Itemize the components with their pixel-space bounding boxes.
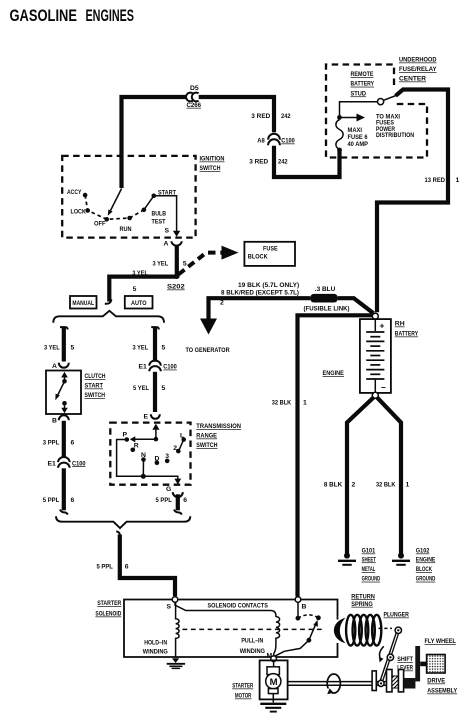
svg-text:AUTO: AUTO: [131, 300, 147, 307]
svg-text:C266: C266: [187, 102, 202, 109]
hold-in winding coil: [176, 602, 180, 657]
flywheel: [427, 655, 446, 674]
svg-text:5: 5: [162, 345, 166, 352]
label MAXI FUSE 6 40 AMP: [348, 127, 369, 148]
line BULB to START: [144, 196, 154, 210]
wire: S202 left to manual/auto split: [109, 277, 177, 302]
svg-text:5 PPL: 5 PPL: [156, 497, 172, 504]
svg-text:8 BLK/RED (EXCEPT 5.7L): 8 BLK/RED (EXCEPT 5.7L): [221, 289, 299, 296]
svg-text:C100: C100: [163, 364, 177, 371]
ignition wiper arm: [111, 189, 122, 211]
svg-text:5: 5: [133, 286, 137, 293]
svg-text:RETURN: RETURN: [351, 593, 375, 600]
curved arrow at lever: [379, 646, 383, 659]
svg-text:GASOLINE: GASOLINE: [10, 6, 78, 25]
split brace: [53, 311, 164, 323]
svg-text:RH: RH: [395, 321, 405, 328]
svg-text:STARTER: STARTER: [232, 683, 253, 690]
wire end hook left: [60, 510, 68, 515]
svg-text:SPRING: SPRING: [351, 601, 373, 608]
S terminal: [172, 597, 178, 603]
battery + terminal: [372, 313, 378, 319]
plunger dashed link: [183, 628, 326, 630]
label RH BATTERY: [395, 321, 419, 338]
svg-text:SWITCH: SWITCH: [196, 442, 217, 449]
label RETURN SPRING: [351, 593, 375, 608]
contact START: [152, 194, 157, 199]
svg-text:1: 1: [406, 482, 410, 489]
ground G101: [338, 553, 356, 565]
auto box: [125, 296, 153, 309]
fusible link element: [310, 294, 338, 303]
pull-in winding coil: [274, 617, 280, 656]
svg-text:RUN: RUN: [120, 226, 132, 233]
drive shaft: [288, 682, 416, 686]
battery plates: [366, 332, 384, 379]
label TO MAXI FUSES POWER DISTRIBUTION: [376, 113, 414, 139]
maxi fuse 6 element: [336, 120, 343, 150]
svg-text:5: 5: [162, 385, 166, 392]
contact RUN: [127, 216, 132, 221]
svg-text:PLUNGER: PLUNGER: [384, 612, 409, 619]
svg-text:BLOCK: BLOCK: [248, 254, 268, 261]
remote battery stud terminal: [378, 99, 384, 105]
svg-text:ACCY: ACCY: [67, 189, 82, 196]
svg-text:BATTERY: BATTERY: [351, 81, 375, 88]
transmission range switch dashed box: [110, 423, 190, 485]
svg-text:3: 3: [165, 453, 169, 460]
merge hook: [116, 531, 120, 535]
svg-text:G101: G101: [362, 548, 376, 555]
svg-text:B: B: [302, 604, 307, 611]
svg-text:G: G: [166, 486, 171, 493]
svg-text:3 YEL: 3 YEL: [133, 345, 149, 352]
svg-text:5: 5: [183, 261, 187, 268]
solenoid internal ground: [167, 658, 185, 668]
svg-text:TRANSMISSION: TRANSMISSION: [196, 423, 241, 430]
svg-text:ASSEMBLY: ASSEMBLY: [427, 688, 457, 695]
svg-text:1: 1: [456, 177, 460, 184]
svg-text:D5: D5: [190, 85, 199, 92]
wire: battery + to 32 BLK run: [298, 315, 373, 596]
rotation arrow: [327, 674, 340, 693]
wire: B to C100: [62, 421, 66, 458]
wire: battery - to G101: [347, 398, 374, 554]
svg-text:BLOCK: BLOCK: [416, 566, 432, 573]
svg-text:METAL: METAL: [362, 566, 376, 573]
svg-text:.3 BLU: .3 BLU: [315, 286, 336, 293]
wire end foot: [105, 299, 112, 304]
svg-text:CLUTCH: CLUTCH: [85, 373, 106, 380]
svg-text:2: 2: [352, 482, 356, 489]
connector cup S/A: [171, 241, 182, 245]
contact arm with arrow: [309, 625, 315, 640]
svg-text:19 BLK (5.7L ONLY): 19 BLK (5.7L ONLY): [238, 282, 299, 289]
svg-text:5: 5: [71, 345, 75, 352]
lever pivots: [395, 627, 401, 633]
wire: C100 to merge (left): [62, 468, 66, 510]
svg-text:3 PPL: 3 PPL: [43, 440, 59, 447]
battery - terminal: [372, 392, 378, 398]
label DRIVE ASSEMBLY: [427, 678, 457, 695]
contact OFF: [104, 217, 109, 222]
svg-text:S: S: [165, 228, 170, 235]
branch hook right: [151, 327, 159, 329]
svg-text:UNDERHOOD: UNDERHOOD: [399, 57, 437, 64]
label STARTER SOLENOID: [95, 600, 121, 618]
svg-text:N: N: [141, 452, 146, 459]
wire: top right feed with bevel: [377, 90, 448, 313]
flywheel nub: [420, 662, 426, 667]
svg-text:13 RED: 13 RED: [425, 177, 446, 184]
wire: generator feed with fusible link: [209, 298, 311, 319]
svg-text:MAXI: MAXI: [348, 127, 363, 134]
svg-text:OFF: OFF: [94, 221, 106, 228]
connector C266 (D5) symbol: [186, 93, 193, 102]
svg-text:6: 6: [125, 564, 129, 571]
contact 3: [165, 459, 170, 464]
svg-text:SOLENOID: SOLENOID: [95, 611, 121, 618]
svg-text:2: 2: [173, 445, 177, 452]
wire: manual branch to A: [62, 327, 66, 361]
plunger dashed tie: [379, 627, 393, 629]
svg-text:6: 6: [71, 440, 75, 447]
svg-text:2: 2: [220, 300, 224, 307]
svg-text:SOLENOID CONTACTS: SOLENOID CONTACTS: [208, 603, 269, 610]
label IGNITION SWITCH: [200, 156, 225, 173]
wire: auto branch to C100: [153, 327, 157, 362]
svg-text:E: E: [144, 414, 149, 421]
svg-text:A: A: [52, 363, 57, 370]
svg-text:C100: C100: [281, 138, 295, 145]
junction node below maxi fuse: [337, 148, 342, 153]
junction node above maxi fuse: [337, 115, 342, 120]
svg-text:MANUAL: MANUAL: [72, 300, 94, 307]
battery RH: [360, 319, 391, 393]
solenoid contact bar from S: [175, 602, 276, 617]
connector C100 E1 (right): [149, 360, 161, 365]
ignition switch dashed box: [62, 156, 195, 238]
ground G102: [392, 553, 410, 565]
line START to S terminal: [154, 196, 177, 232]
svg-text:1: 1: [303, 400, 307, 407]
fuse block box: [244, 242, 295, 266]
contact BULB TEST: [142, 208, 147, 213]
svg-text:L: L: [180, 433, 184, 440]
starter solenoid box: [124, 600, 338, 658]
wire: G to merge: [176, 494, 180, 510]
svg-text:E1: E1: [139, 364, 148, 371]
contact R: [131, 448, 136, 453]
svg-text:RANGE: RANGE: [196, 433, 217, 440]
svg-text:D: D: [155, 455, 160, 462]
shaft collars: [372, 671, 376, 691]
svg-text:−: −: [381, 383, 386, 393]
svg-text:C100: C100: [72, 460, 86, 467]
return spring: [346, 615, 381, 646]
svg-text:3 YEL: 3 YEL: [132, 270, 148, 277]
branch hook left: [60, 327, 68, 329]
svg-text:BULB: BULB: [152, 211, 167, 218]
svg-text:A8: A8: [257, 138, 265, 145]
wire: C100 to E: [153, 372, 157, 412]
svg-text:E1: E1: [48, 460, 57, 467]
svg-text:3 RED: 3 RED: [249, 159, 268, 166]
svg-text:3 YEL: 3 YEL: [153, 261, 169, 268]
manual box: [70, 296, 97, 309]
svg-text:+: +: [380, 321, 385, 331]
svg-text:B: B: [52, 418, 57, 425]
underhood fuse/relay center dashed box: [326, 65, 427, 158]
switch line from stud to wire: [384, 96, 397, 101]
svg-text:BATTERY: BATTERY: [395, 331, 419, 338]
svg-text:G102: G102: [416, 548, 430, 555]
svg-text:GROUND: GROUND: [416, 576, 436, 583]
clutch switch contacts: [61, 372, 68, 378]
svg-text:R: R: [134, 443, 139, 450]
starter motor: [273, 662, 275, 668]
contact ACCY: [83, 193, 88, 198]
contact 2: [176, 449, 181, 454]
label UNDERHOOD FUSE/RELAY CENTER: [399, 57, 437, 83]
svg-text:32 BLK: 32 BLK: [376, 482, 395, 489]
svg-text:5 PPL: 5 PPL: [97, 564, 113, 571]
svg-text:SWITCH: SWITCH: [200, 165, 221, 172]
svg-text:6: 6: [71, 497, 75, 504]
arrow TO GENERATOR: [200, 319, 217, 335]
connector C100 E1 (left): [58, 457, 70, 462]
arrow to maxi fuses power distribution: [340, 117, 357, 119]
svg-text:242: 242: [278, 159, 288, 166]
svg-text:DISTRIBUTION: DISTRIBUTION: [376, 132, 414, 139]
svg-text:STUD: STUD: [351, 90, 367, 97]
wire: ignition feed from D5 to ignition switch: [122, 97, 188, 188]
svg-text:WINDING: WINDING: [143, 649, 168, 656]
svg-text:IGNITION: IGNITION: [200, 156, 225, 163]
contact N: [141, 457, 146, 462]
svg-text:START: START: [85, 383, 104, 390]
B terminal: [295, 597, 301, 603]
svg-text:SHIFT: SHIFT: [397, 656, 413, 663]
M terminal: [271, 656, 277, 662]
svg-text:WINDING: WINDING: [240, 648, 265, 655]
wire: merge to S terminal: [120, 535, 175, 597]
clutch start switch box: [46, 371, 81, 415]
svg-text:PULL–IN: PULL–IN: [241, 638, 263, 645]
svg-text:FUSE: FUSE: [263, 245, 278, 252]
svg-text:SWITCH: SWITCH: [85, 392, 106, 399]
svg-text:P: P: [123, 431, 128, 438]
plunger face crescent: [334, 618, 346, 643]
contact L: [181, 437, 186, 442]
wire: stud to maxi fuse (thin): [340, 102, 378, 116]
svg-text:5 YEL: 5 YEL: [133, 385, 149, 392]
svg-text:GROUND: GROUND: [362, 576, 381, 583]
wire: A to S202: [175, 246, 179, 276]
svg-text:8 BLK: 8 BLK: [324, 482, 342, 489]
contact D: [155, 461, 160, 466]
label SHIFT LEVER: [397, 656, 413, 672]
svg-text:REMOTE: REMOTE: [351, 71, 374, 78]
wire: battery - to G102: [377, 398, 401, 554]
svg-text:S202: S202: [167, 284, 185, 291]
svg-text:CENTER: CENTER: [399, 76, 426, 83]
svg-text:M: M: [270, 677, 278, 688]
svg-text:6: 6: [183, 497, 187, 504]
svg-text:242: 242: [281, 113, 291, 120]
splice S202: [174, 273, 180, 279]
dashed detent arc: [85, 195, 144, 219]
svg-text:SHEET: SHEET: [362, 556, 377, 563]
label REMOTE BATTERY STUD: [351, 71, 375, 97]
svg-text:ENGINES: ENGINES: [86, 6, 135, 25]
svg-text:40 AMP: 40 AMP: [348, 141, 369, 148]
svg-text:LOCK: LOCK: [71, 209, 86, 216]
svg-text:ENGINE: ENGINE: [323, 370, 345, 377]
svg-text:5 PPL: 5 PPL: [43, 497, 59, 504]
dashed moving contact: [298, 615, 319, 618]
svg-text:ENGINE: ENGINE: [416, 556, 436, 563]
merge brace: [56, 516, 190, 528]
shift lever rod: [381, 630, 398, 681]
svg-text:M: M: [267, 653, 273, 660]
wire: D5 to C100 vertical: [199, 97, 274, 132]
B contact stem: [297, 602, 299, 616]
svg-text:FLY WHEEL: FLY WHEEL: [425, 638, 456, 645]
svg-text:S: S: [167, 604, 172, 611]
connector C100 symbol at A8: [268, 134, 280, 140]
svg-text:(FUSIBLE LINK): (FUSIBLE LINK): [304, 305, 350, 312]
svg-text:MOTOR: MOTOR: [235, 693, 252, 700]
svg-text:FUSE 6: FUSE 6: [348, 134, 368, 141]
label STARTER MOTOR: [232, 683, 253, 700]
svg-text:3 YEL: 3 YEL: [44, 345, 60, 352]
svg-text:DRIVE: DRIVE: [427, 678, 445, 685]
contact LOCK: [85, 208, 90, 213]
wire end hook right: [174, 510, 182, 515]
svg-text:A: A: [164, 241, 169, 248]
svg-text:3 RED: 3 RED: [251, 113, 270, 120]
dashed wire to fuse block: [179, 253, 222, 275]
motor ground: [272, 694, 274, 703]
svg-text:STARTER: STARTER: [97, 600, 121, 607]
rail P to G: [117, 440, 178, 480]
svg-text:FUSE/RELAY: FUSE/RELAY: [399, 66, 437, 73]
range switch internals: [152, 424, 159, 430]
S terminal arrow into connector: [173, 231, 180, 237]
svg-text:TEST: TEST: [152, 219, 167, 226]
contact P: [125, 437, 130, 442]
svg-text:TO GENERATOR: TO GENERATOR: [186, 347, 230, 354]
svg-text:HOLD–IN: HOLD–IN: [144, 640, 167, 647]
pinion bar: [415, 646, 420, 681]
svg-text:32 BLK: 32 BLK: [272, 400, 291, 407]
wire: C100 down then right and up to maxi fuse: [274, 146, 340, 177]
